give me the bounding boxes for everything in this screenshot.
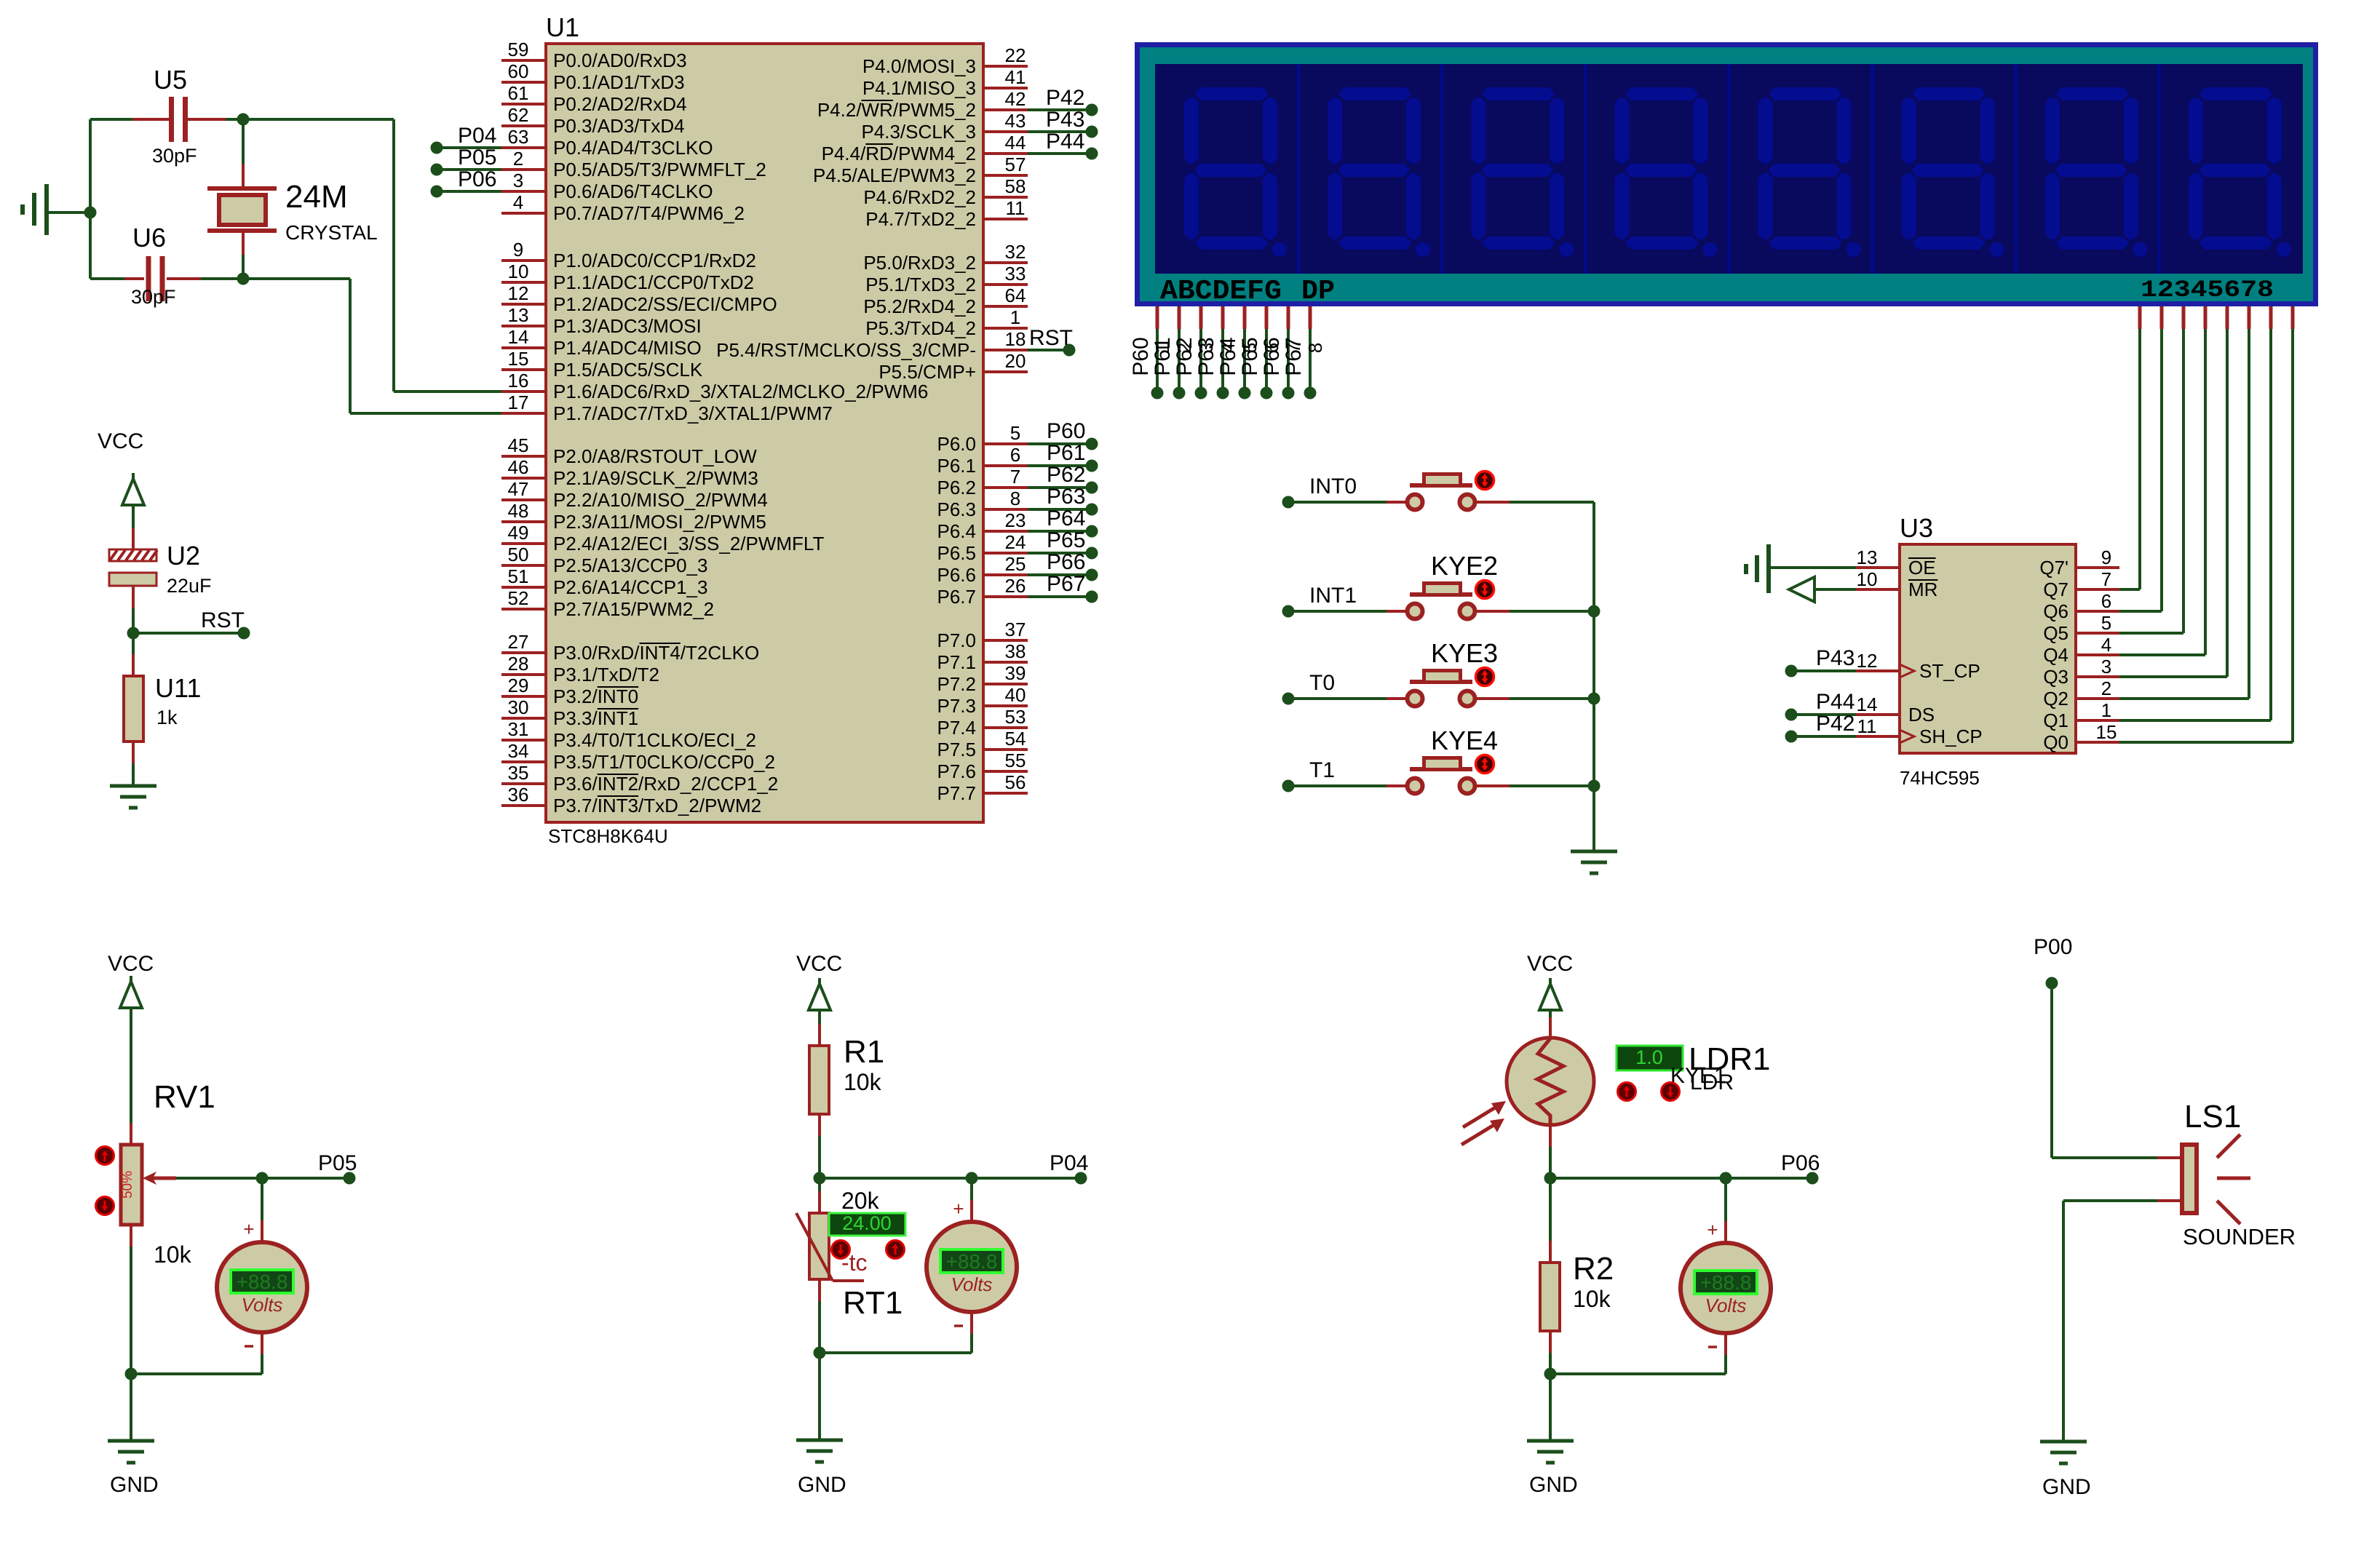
svg-text:22uF: 22uF <box>167 575 212 597</box>
svg-text:P2.1/A9/SCLK_2/PWM3: P2.1/A9/SCLK_2/PWM3 <box>553 467 758 489</box>
wire XTAL2 vertical <box>392 119 395 392</box>
svg-text:P4.2/WR/PWM5_2: P4.2/WR/PWM5_2 <box>817 99 976 121</box>
svg-text:2: 2 <box>513 148 523 170</box>
svg-text:45: 45 <box>508 434 529 456</box>
wire U3 Q4 to display <box>2119 653 2205 656</box>
svg-text:12: 12 <box>1857 650 1878 672</box>
svg-text:VCC: VCC <box>98 429 143 453</box>
svg-text:10: 10 <box>508 261 529 282</box>
U1 pin 2 P0.5 <box>501 168 546 171</box>
svg-text:47: 47 <box>508 478 529 500</box>
shift register U3 74HC595 <box>1900 544 2076 753</box>
wire display digit pin 8 to U3 Q0 <box>2291 306 2295 329</box>
U1 pin 10 P1.1 <box>501 281 546 284</box>
svg-text:54: 54 <box>1005 728 1026 750</box>
svg-text:P3.5/T1/T0CLKO/CCP0_2: P3.5/T1/T0CLKO/CCP0_2 <box>553 751 775 773</box>
U1 pin 43 P4.3 <box>983 130 1028 133</box>
net P43 terminal at U1 <box>1028 130 1086 133</box>
svg-text:P6.5: P6.5 <box>937 542 977 564</box>
wire U3 Q3 to display <box>2119 675 2227 678</box>
svg-text:P7.5: P7.5 <box>937 739 977 760</box>
svg-text:P5.2/RxD4_2: P5.2/RxD4_2 <box>863 295 976 317</box>
svg-text:P0.3/AD3/TxD4: P0.3/AD3/TxD4 <box>553 115 685 137</box>
U1 pin 56 P7.7 <box>983 792 1028 795</box>
svg-text:13: 13 <box>508 304 529 326</box>
node junction RT1 gnd <box>814 1347 826 1359</box>
svg-text:P7.1: P7.1 <box>937 651 977 673</box>
net P44 terminal to U3 <box>1785 709 1798 721</box>
power VCC (RV1) <box>120 982 142 1008</box>
svg-text:P5.5/CMP+: P5.5/CMP+ <box>878 361 976 383</box>
svg-text:R1: R1 <box>844 1034 884 1070</box>
svg-text:61: 61 <box>508 82 529 104</box>
U3 pin 2 Q2 <box>2076 697 2119 700</box>
U1 pin 5 P6.0 <box>983 442 1028 445</box>
net P04 terminal <box>431 142 443 154</box>
svg-text:62: 62 <box>508 104 529 126</box>
U1 pin 35 P3.6 <box>501 782 546 785</box>
U1 pin 11 P4.7 <box>983 218 1028 220</box>
wire node to R2 <box>1549 1178 1552 1241</box>
capacitor U6 30pF <box>124 277 144 280</box>
display pin 6 net P65 <box>1265 306 1269 329</box>
U3 pin 4 Q4 <box>2076 653 2119 656</box>
svg-text:P05: P05 <box>318 1151 357 1175</box>
net P05 terminal <box>431 164 443 176</box>
svg-text:P5.4/RST/MCLKO/SS_3/CMP-: P5.4/RST/MCLKO/SS_3/CMP- <box>716 339 976 361</box>
svg-text:SH_CP: SH_CP <box>1919 726 1983 747</box>
wire U5 row left <box>90 118 132 121</box>
svg-text:30: 30 <box>508 696 529 718</box>
U1 pin 45 P2.0 <box>501 455 546 458</box>
U1 pin 49 P2.4 <box>501 542 546 545</box>
svg-text:P6.3: P6.3 <box>937 498 977 520</box>
node junction RT1 meter <box>966 1172 978 1185</box>
U1 pin 24 P6.5 <box>983 552 1028 555</box>
wire LDR1 bottom <box>1549 1125 1552 1147</box>
power VCC (LDR1) <box>1539 984 1561 1010</box>
svg-text:50%: 50% <box>120 1171 135 1199</box>
wire XTAL2 to pin16 <box>394 390 501 393</box>
U1 pin 57 P4.5 <box>983 174 1028 177</box>
svg-text:42: 42 <box>1005 88 1026 110</box>
push button KYE1 net INT0 <box>1282 496 1295 509</box>
svg-text:31: 31 <box>508 718 529 740</box>
svg-text:P65: P65 <box>1238 337 1262 375</box>
wire XTAL2 horizontal <box>243 118 394 121</box>
svg-text:P66: P66 <box>1047 550 1085 574</box>
wire U6 row left <box>90 277 124 280</box>
U1 pin 55 P7.6 <box>983 770 1028 773</box>
U1 pin 18 P5.4 <box>983 349 1028 351</box>
svg-text:P0.0/AD0/RxD3: P0.0/AD0/RxD3 <box>553 49 687 71</box>
svg-text:14: 14 <box>508 326 529 348</box>
wire node to P06 a <box>1550 1177 1720 1180</box>
svg-text:VCC: VCC <box>796 952 842 976</box>
net P60 terminal at U1 <box>1028 442 1086 445</box>
svg-text:CRYSTAL: CRYSTAL <box>285 221 378 244</box>
wire U3 Q7 to display <box>2119 588 2140 591</box>
svg-text:74HC595: 74HC595 <box>1900 767 1980 789</box>
U1 pin 41 P4.1 <box>983 87 1028 90</box>
svg-text:GND: GND <box>798 1473 846 1497</box>
U3 pin 12 ST_CP <box>1856 669 1900 672</box>
svg-text:9: 9 <box>513 239 523 261</box>
svg-text:P63: P63 <box>1047 485 1085 509</box>
U1 pin 33 P5.1 <box>983 283 1028 286</box>
U1 pin 42 P4.2 <box>983 108 1028 111</box>
wire node to U11 <box>132 633 135 654</box>
svg-text:5: 5 <box>1010 422 1020 444</box>
U1 pin 7 P6.2 <box>983 486 1028 489</box>
svg-text:VCC: VCC <box>108 952 154 976</box>
svg-text:P62: P62 <box>1047 463 1085 487</box>
svg-text:10k: 10k <box>1573 1286 1611 1312</box>
U1 pin 51 P2.6 <box>501 586 546 589</box>
display pin 4 net P63 <box>1221 306 1225 329</box>
U1 pin 16 P1.6 <box>501 390 546 393</box>
net RST terminal at U1 <box>1028 349 1063 351</box>
display pin 5 net P64 <box>1243 306 1247 329</box>
svg-text:P62: P62 <box>1173 337 1197 375</box>
node junction XTAL2 <box>237 114 250 126</box>
svg-text:LS1: LS1 <box>2184 1099 2241 1134</box>
svg-text:STC8H8K64U: STC8H8K64U <box>548 825 668 847</box>
svg-text:Q3: Q3 <box>2043 666 2068 688</box>
svg-text:P4.7/TxD2_2: P4.7/TxD2_2 <box>865 208 976 230</box>
power VCC (R1) <box>809 984 830 1010</box>
wire display digit pin 5 to U3 Q3 <box>2226 306 2229 329</box>
U1 pin 47 P2.2 <box>501 498 546 501</box>
wire node to P04 b <box>972 1177 1075 1180</box>
svg-text:P04: P04 <box>1050 1151 1088 1175</box>
display pin 8 net P67 <box>1309 306 1312 329</box>
svg-text:P3.7/INT3/TxD_2/PWM2: P3.7/INT3/TxD_2/PWM2 <box>553 795 761 816</box>
svg-text:GND: GND <box>110 1473 159 1497</box>
wire display digit pin 7 to U3 Q1 <box>2269 306 2273 329</box>
svg-text:30pF: 30pF <box>152 145 197 167</box>
node junction LDR meter <box>1720 1172 1732 1185</box>
svg-text:RST: RST <box>201 608 245 632</box>
U1 pin 48 P2.3 <box>501 520 546 523</box>
svg-text:15: 15 <box>508 348 529 370</box>
svg-text:KYE2: KYE2 <box>1431 551 1498 581</box>
svg-text:26: 26 <box>1005 575 1026 597</box>
svg-text:P63: P63 <box>1194 337 1218 375</box>
U1 pin 52 P2.7 <box>501 608 546 611</box>
svg-text:P4.4/RD/PWM4_2: P4.4/RD/PWM4_2 <box>822 143 976 164</box>
svg-text:DP: DP <box>1301 276 1335 307</box>
U1 pin 53 P7.4 <box>983 726 1028 729</box>
U1 pin 62 P0.3 <box>501 124 546 127</box>
svg-text:63: 63 <box>508 126 529 148</box>
svg-text:Q1: Q1 <box>2043 710 2068 731</box>
ground (crystal, sideways) <box>44 184 49 235</box>
svg-text:U1: U1 <box>546 12 579 42</box>
wire display digit pin 1 to U3 Q7 <box>2138 306 2142 329</box>
wire R2 bottom <box>1549 1331 1552 1353</box>
U1 pin 64 P5.2 <box>983 305 1028 308</box>
svg-text:P66: P66 <box>1260 337 1284 375</box>
svg-text:P1.7/ADC7/TxD_3/XTAL1/PWM7: P1.7/ADC7/TxD_3/XTAL1/PWM7 <box>553 402 833 424</box>
U1 pin 37 P7.0 <box>983 639 1028 642</box>
U1 pin 54 P7.5 <box>983 748 1028 751</box>
net P61 terminal at U1 <box>1028 464 1086 467</box>
U1 pin 14 P1.4 <box>501 346 546 349</box>
display pin 2 net P61 <box>1178 306 1181 329</box>
svg-text:P6.1: P6.1 <box>937 455 977 477</box>
ground (LDR) <box>1527 1441 1574 1463</box>
svg-text:48: 48 <box>508 500 529 522</box>
svg-text:P2.5/A13/CCP0_3: P2.5/A13/CCP0_3 <box>553 555 707 576</box>
svg-text:OE: OE <box>1908 557 1936 579</box>
svg-text:4: 4 <box>513 191 523 213</box>
U1 pin 38 P7.1 <box>983 661 1028 664</box>
svg-text:P1.1/ADC1/CCP0/TxD2: P1.1/ADC1/CCP0/TxD2 <box>553 271 754 293</box>
U1 pin 25 P6.6 <box>983 573 1028 576</box>
svg-text:GND: GND <box>2042 1475 2091 1499</box>
svg-text:20: 20 <box>1005 350 1026 372</box>
wire RV1 bottom <box>130 1225 132 1247</box>
U1 pin 32 P5.0 <box>983 261 1028 264</box>
node junction bus INT1 <box>1588 605 1600 618</box>
U1 pin 40 P7.3 <box>983 704 1028 707</box>
svg-text:44: 44 <box>1005 132 1026 154</box>
U1 pin 27 P3.0 <box>501 651 546 654</box>
svg-text:P4.5/ALE/PWM3_2: P4.5/ALE/PWM3_2 <box>813 164 976 186</box>
svg-text:P2.3/A11/MOSI_2/PWM5: P2.3/A11/MOSI_2/PWM5 <box>553 511 766 533</box>
net RST wire <box>133 632 238 635</box>
svg-text:17: 17 <box>508 392 529 413</box>
wire RT1 bottom <box>818 1279 821 1301</box>
U1 pin 4 P0.7 <box>501 212 546 215</box>
svg-text:P43: P43 <box>1816 646 1855 670</box>
svg-text:P2.0/A8/RSTOUT_LOW: P2.0/A8/RSTOUT_LOW <box>553 445 757 467</box>
net RST terminal <box>238 627 250 640</box>
U1 pin 12 P1.2 <box>501 303 546 306</box>
svg-text:P0.2/AD2/RxD4: P0.2/AD2/RxD4 <box>553 93 687 115</box>
svg-text:ST_CP: ST_CP <box>1919 660 1980 682</box>
U3 pin 6 Q6 <box>2076 610 2119 613</box>
node junction RV1 gnd <box>125 1368 138 1380</box>
voltmeter wires (RT1) <box>970 1178 973 1200</box>
svg-text:14: 14 <box>1857 693 1878 715</box>
svg-text:57: 57 <box>1005 154 1026 175</box>
U1 pin 60 P0.1 <box>501 81 546 84</box>
U1 pin 30 P3.3 <box>501 717 546 720</box>
resistor R2 10k <box>1540 1263 1560 1331</box>
svg-text:1k: 1k <box>156 707 178 728</box>
svg-text:P64: P64 <box>1216 337 1240 375</box>
svg-text:9: 9 <box>2101 547 2111 568</box>
wire P00 to LS1 <box>2050 983 2053 1158</box>
U3 pin 7 Q7 <box>2076 588 2119 591</box>
U1 pin 13 P1.3 <box>501 325 546 327</box>
ground (RT1) <box>796 1440 843 1462</box>
svg-text:Q0: Q0 <box>2043 731 2068 753</box>
svg-text:P7.7: P7.7 <box>937 782 977 804</box>
svg-text:8: 8 <box>1010 488 1020 509</box>
svg-text:3: 3 <box>2101 656 2111 677</box>
svg-text:12: 12 <box>508 282 529 304</box>
svg-text:P7.3: P7.3 <box>937 695 977 717</box>
svg-text:Q5: Q5 <box>2043 622 2068 644</box>
svg-text:Q7': Q7' <box>2039 557 2068 579</box>
wire LS1 to GND <box>2157 1199 2182 1202</box>
svg-text:13: 13 <box>1857 547 1878 568</box>
svg-text:7: 7 <box>2101 568 2111 590</box>
svg-text:P44: P44 <box>1816 690 1855 714</box>
svg-text:P3.3/INT1: P3.3/INT1 <box>553 707 638 729</box>
svg-text:U3: U3 <box>1900 513 1933 543</box>
LDR LDR1 <box>1507 1038 1594 1125</box>
net P42 terminal to U3 <box>1785 731 1798 743</box>
U1 pin 23 P6.4 <box>983 530 1028 533</box>
svg-text:P7.0: P7.0 <box>937 629 977 651</box>
net P44 terminal at U1 <box>1028 152 1086 155</box>
svg-text:39: 39 <box>1005 662 1026 684</box>
wire XTAL left vertical <box>89 119 92 279</box>
svg-text:2: 2 <box>2101 677 2111 699</box>
capacitor U5 30pF <box>132 118 169 121</box>
svg-text:1: 1 <box>1010 306 1020 328</box>
svg-text:P0.1/AD1/TxD3: P0.1/AD1/TxD3 <box>553 71 685 93</box>
svg-text:P61: P61 <box>1151 337 1175 375</box>
wire U2 to node <box>132 586 135 608</box>
display digits (unlit segments) <box>1184 87 1287 257</box>
ground (RV1) <box>108 1441 154 1463</box>
U1 pin 63 P0.4 <box>501 146 546 149</box>
wire node to P04 a <box>820 1177 966 1180</box>
U3 pin 1 Q1 <box>2076 719 2119 722</box>
svg-text:P1.5/ADC5/SCLK: P1.5/ADC5/SCLK <box>553 359 703 381</box>
svg-text:RST: RST <box>1029 326 1073 350</box>
svg-text:58: 58 <box>1005 175 1026 197</box>
wire button bus vertical <box>1592 502 1595 851</box>
svg-text:P6.0: P6.0 <box>937 433 977 455</box>
push button KYE3 net T0 <box>1282 693 1295 705</box>
svg-text:53: 53 <box>1005 706 1026 728</box>
svg-text:10k: 10k <box>154 1241 192 1268</box>
net P06 terminal <box>1806 1172 1819 1185</box>
svg-text:VCC: VCC <box>1527 952 1573 976</box>
net P63 terminal at U1 <box>1028 508 1086 511</box>
net P42 terminal at U1 <box>1028 108 1086 111</box>
svg-text:P1.0/ADC0/CCP1/RxD2: P1.0/ADC0/CCP1/RxD2 <box>553 250 756 271</box>
U1 pin 26 P6.7 <box>983 595 1028 598</box>
svg-text:52: 52 <box>508 587 529 609</box>
svg-text:ABCDEFG: ABCDEFG <box>1160 276 1282 307</box>
svg-text:56: 56 <box>1005 771 1026 793</box>
wire VCC to U2 <box>132 509 135 528</box>
svg-text:RT1: RT1 <box>843 1285 903 1321</box>
svg-text:3: 3 <box>513 170 523 191</box>
svg-text:38: 38 <box>1005 640 1026 662</box>
svg-text:28: 28 <box>508 653 529 675</box>
ground (reset) <box>110 784 156 788</box>
svg-text:P4.0/MOSI_3: P4.0/MOSI_3 <box>862 55 976 77</box>
sounder LS1 <box>2182 1145 2197 1213</box>
U3 pin 3 Q3 <box>2076 675 2119 678</box>
svg-text:P4.1/MISO_3: P4.1/MISO_3 <box>862 77 976 99</box>
svg-text:P6.6: P6.6 <box>937 564 977 586</box>
svg-text:P64: P64 <box>1047 506 1085 530</box>
svg-text:55: 55 <box>1005 750 1026 771</box>
svg-text:P04: P04 <box>458 124 496 148</box>
node junction XTAL1 <box>237 273 250 285</box>
U1 pin 22 P4.0 <box>983 65 1028 68</box>
svg-text:1: 1 <box>2101 699 2111 721</box>
wire RT1 to GND <box>818 1353 821 1440</box>
wire U5 to node <box>226 118 243 121</box>
wire RV1 to GND <box>130 1374 132 1441</box>
node junction R1/RT1 <box>814 1172 826 1185</box>
display DS1 8-digit 7-segment frame <box>1135 42 2318 306</box>
svg-text:P65: P65 <box>1047 528 1085 552</box>
U3 pin 13 OE <box>1856 566 1900 569</box>
svg-text:P5.0/RxD3_2: P5.0/RxD3_2 <box>863 252 976 274</box>
thermistor RT1 20k <box>809 1213 829 1279</box>
svg-text:49: 49 <box>508 522 529 544</box>
svg-text:32: 32 <box>1005 241 1026 263</box>
svg-text:P2.4/A12/ECI_3/SS_2/PWMFLT: P2.4/A12/ECI_3/SS_2/PWMFLT <box>553 533 824 555</box>
svg-text:1.0: 1.0 <box>1635 1046 1663 1068</box>
svg-text:P1.3/ADC3/MOSI: P1.3/ADC3/MOSI <box>553 315 702 337</box>
svg-text:6: 6 <box>1010 444 1020 466</box>
svg-text:P3.0/RxD/INT4/T2CLKO: P3.0/RxD/INT4/T2CLKO <box>553 642 759 664</box>
svg-text:P67: P67 <box>1282 337 1306 375</box>
svg-text:P1.4/ADC4/MISO: P1.4/ADC4/MISO <box>553 337 702 359</box>
net P04 terminal <box>1075 1172 1087 1185</box>
U1 pin 59 P0.0 <box>501 59 546 62</box>
svg-text:P43: P43 <box>1046 108 1084 132</box>
svg-text:Q7: Q7 <box>2043 579 2068 600</box>
svg-text:R2: R2 <box>1573 1251 1614 1287</box>
svg-text:INT0: INT0 <box>1309 474 1357 498</box>
svg-text:5: 5 <box>2101 612 2111 634</box>
net P06 terminal <box>431 186 443 198</box>
push button KYE4 net T1 <box>1282 780 1295 792</box>
svg-text:46: 46 <box>508 456 529 478</box>
svg-text:60: 60 <box>508 60 529 82</box>
svg-text:50: 50 <box>508 544 529 565</box>
svg-text:P5.1/TxD3_2: P5.1/TxD3_2 <box>865 274 976 295</box>
svg-text:43: 43 <box>1005 110 1026 132</box>
display pin 7 net P66 <box>1287 306 1290 329</box>
svg-text:34: 34 <box>508 740 529 762</box>
ground (LS1) <box>2040 1442 2087 1463</box>
svg-text:INT1: INT1 <box>1309 584 1357 608</box>
resistor R1 10k <box>809 1046 829 1114</box>
node junction crystal-gnd <box>84 207 97 219</box>
svg-text:MR: MR <box>1908 579 1937 600</box>
net P64 terminal at U1 <box>1028 530 1086 533</box>
U1 pin 20 P5.5 <box>983 370 1028 373</box>
wire R1 to node <box>818 1114 821 1136</box>
U3 pin 9 Q7' <box>2076 566 2119 569</box>
net P65 terminal at U1 <box>1028 552 1086 555</box>
svg-text:P2.7/A15/PWM2_2: P2.7/A15/PWM2_2 <box>553 598 714 620</box>
svg-text:P6.7: P6.7 <box>937 586 977 608</box>
svg-text:P7.4: P7.4 <box>937 717 977 739</box>
U1 pin 1 P5.3 <box>983 327 1028 330</box>
U1 pin 46 P2.1 <box>501 477 546 480</box>
net P05 terminal <box>344 1172 356 1185</box>
svg-text:41: 41 <box>1005 66 1026 88</box>
svg-text:Q4: Q4 <box>2043 644 2068 666</box>
capacitor U2 22uF <box>109 549 156 561</box>
svg-text:P06: P06 <box>1781 1151 1820 1175</box>
